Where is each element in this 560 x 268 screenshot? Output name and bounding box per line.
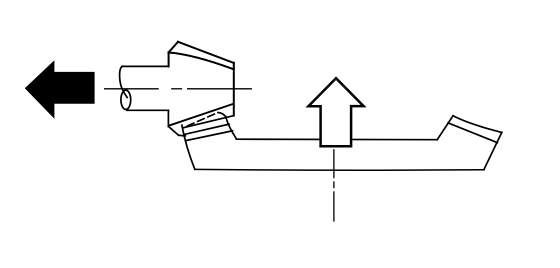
shaft bottom line xyxy=(127,109,168,111)
frustum bottom front edge L1 xyxy=(170,104,234,126)
horizontal centerline xyxy=(105,88,252,90)
frustum top peak segment xyxy=(169,42,178,53)
left black arrow xyxy=(25,60,95,119)
shaft top line xyxy=(122,65,168,67)
arm left cap lower xyxy=(179,134,186,137)
runner left steep edge xyxy=(226,117,237,139)
runner right upslant xyxy=(437,116,453,140)
shaft end ellipse xyxy=(121,90,131,109)
arm strip top edge L3 xyxy=(184,124,229,134)
shaft end arc xyxy=(120,66,128,97)
up arrow U (outline) xyxy=(308,78,363,146)
frustum top front edge xyxy=(169,53,234,70)
arm left cap upper xyxy=(168,126,178,135)
runner right flare top edge xyxy=(453,116,502,133)
runner right flare inner edge xyxy=(448,123,497,143)
arm strip bottom edge L4 xyxy=(187,131,233,141)
arm hidden edge curve into runner xyxy=(218,113,226,117)
frustum bottom back edge L2 xyxy=(183,116,234,128)
runner left descent xyxy=(182,125,195,169)
frustum large-end right edge xyxy=(233,63,235,116)
runner right end edge xyxy=(484,132,502,169)
frustum top back edge xyxy=(178,42,234,63)
vertical centerline xyxy=(333,150,335,221)
frustum small-end step bottom xyxy=(167,110,169,126)
arm hidden edge (dashed) xyxy=(187,113,218,126)
runner bottom line xyxy=(195,168,484,171)
frustum small-end step top xyxy=(168,52,170,66)
runner top line xyxy=(236,138,437,141)
